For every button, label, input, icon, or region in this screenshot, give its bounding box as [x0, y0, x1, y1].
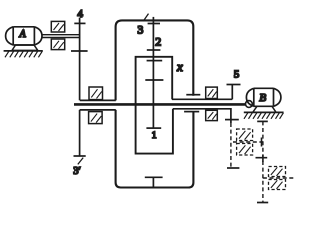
svg-text:x: x: [176, 59, 183, 74]
gear 1 tick: [146, 127, 161, 129]
sleeve lower line with corner down: [173, 109, 231, 120]
sleeve upper line: [172, 98, 232, 100]
ground under motor B: [244, 112, 284, 118]
central vertical shaft: [152, 17, 154, 128]
gear hatched square right upper: [206, 87, 218, 98]
frame ring gear: upper part (left upper edge, top, right upper edge): [116, 20, 194, 100]
dashed gear square lower (unit 2): [269, 180, 286, 190]
dashed gear square lower (unit 1): [237, 144, 253, 156]
gear tick T4: [145, 79, 163, 81]
shaft 3' stub: [79, 110, 81, 156]
gear tick T6 with stub: [145, 177, 163, 187]
svg-text:A: A: [19, 29, 27, 40]
shaft 5 vertical: [231, 85, 233, 100]
dashed vertical shaft (unit 2): [262, 121, 264, 202]
left gearbox upper line: [80, 99, 116, 101]
gear hatched square lower left: [89, 112, 103, 124]
hub circle at motor B: [246, 101, 253, 108]
gear tick on ring right edge upper: [186, 94, 200, 96]
dashed gear square upper (unit 2): [269, 167, 286, 177]
bottom tick (unit 2): [257, 202, 268, 204]
main horizontal shaft: [74, 103, 246, 106]
gear tick below motor B: [257, 120, 268, 122]
gear tick 3': [74, 155, 86, 157]
svg-text:B: B: [259, 92, 266, 104]
carrier x (inner rect): [136, 57, 173, 154]
ground under motor A: [4, 51, 43, 57]
frame ring gear: lower part: [116, 110, 194, 188]
gear tick T2: [147, 49, 161, 51]
svg-text:1: 1: [152, 131, 157, 141]
dashed gear square upper (unit 1): [237, 129, 253, 141]
gear hatched square right lower: [206, 110, 218, 120]
dashed shaft below gear 5: [230, 120, 232, 123]
motor B body: [246, 88, 281, 106]
pedestal of motor A: [12, 45, 38, 50]
gear tick shaft 5: [227, 84, 241, 86]
gear tick T1: [148, 23, 160, 25]
gear tick at end of unit 1 shaft: [261, 138, 263, 147]
svg-text:3: 3: [137, 23, 143, 37]
svg-text:5: 5: [234, 69, 240, 81]
gear tick middle (unit 2): [256, 155, 268, 163]
worm gear upper (hatched square): [51, 21, 64, 32]
gear tick on ring right edge lower: [184, 111, 199, 113]
gear tick T3: [147, 60, 163, 62]
gear hatched square upper left: [89, 87, 103, 100]
dashed horizontal shaft (unit 1): [233, 141, 263, 143]
gear tick on shaft 4 lower: [71, 50, 88, 52]
gear tick below sleeve: [225, 119, 239, 121]
worm gear lower (hatched square): [51, 39, 64, 50]
gear tick on shaft 4 top: [74, 22, 85, 24]
leader slash at 3': [78, 158, 83, 165]
dashed horizontal shaft (unit 2): [263, 177, 294, 179]
shaft 4: [79, 18, 81, 101]
shaft from motor A (two lines): [42, 35, 80, 38]
svg-text:2: 2: [155, 34, 161, 48]
slash marker at gear 3: [143, 14, 148, 22]
motor A body: [6, 27, 42, 45]
left gearbox lower line: [80, 109, 116, 111]
pedestal of motor B: [253, 106, 276, 112]
svg-text:3′: 3′: [73, 166, 81, 177]
bottom tick of dashed shaft (unit 1): [227, 167, 239, 169]
